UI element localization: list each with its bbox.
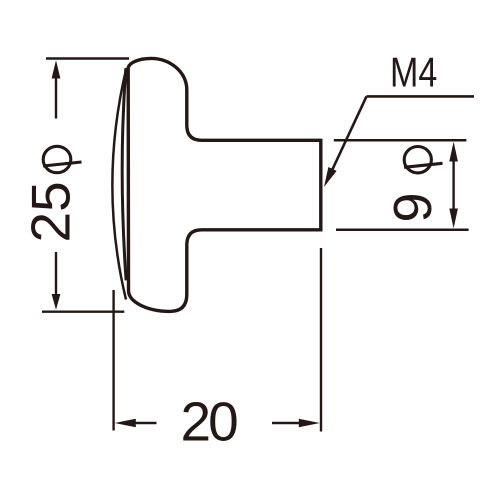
dim 25phi lower shaft: [55, 252, 57, 296]
dim 20 right arrowhead: [299, 419, 320, 428]
dim 25phi down arrowhead: [52, 294, 61, 310]
dim 20 right extension line: [320, 248, 322, 432]
dim phi9 lower extension line: [336, 229, 469, 232]
svg-text:M4: M4: [390, 49, 437, 96]
dim 20 left shaft: [133, 422, 157, 424]
leader M4 diagonal: [331, 96, 367, 172]
knob body outline: [128, 58, 321, 311]
svg-text:9: 9: [383, 192, 443, 222]
knob face inner edge line: [122, 68, 126, 280]
dim phi9 shaft: [452, 160, 454, 211]
phi symbol right: [404, 147, 443, 173]
svg-text:20: 20: [181, 391, 238, 453]
phi symbol left: [43, 146, 82, 172]
dim 25phi top extension line: [46, 57, 129, 59]
dim 25phi up arrowhead: [52, 60, 61, 78]
svg-text:25: 25: [20, 181, 82, 242]
dim 25phi upper shaft: [55, 76, 57, 119]
dim 20 left extension line: [112, 290, 114, 431]
dim phi9 down arrowhead: [449, 209, 458, 229]
dim phi9 up arrowhead: [449, 142, 458, 162]
dim 25phi bottom extension line: [42, 311, 124, 313]
dim phi9 upper extension line: [334, 139, 467, 142]
dim 20 right shaft: [272, 422, 300, 424]
leader M4 horizontal: [367, 95, 475, 98]
dim 20 left arrowhead: [115, 419, 136, 428]
leader M4 arrowhead: [324, 167, 337, 187]
knob face outer arc: [112, 68, 126, 300]
